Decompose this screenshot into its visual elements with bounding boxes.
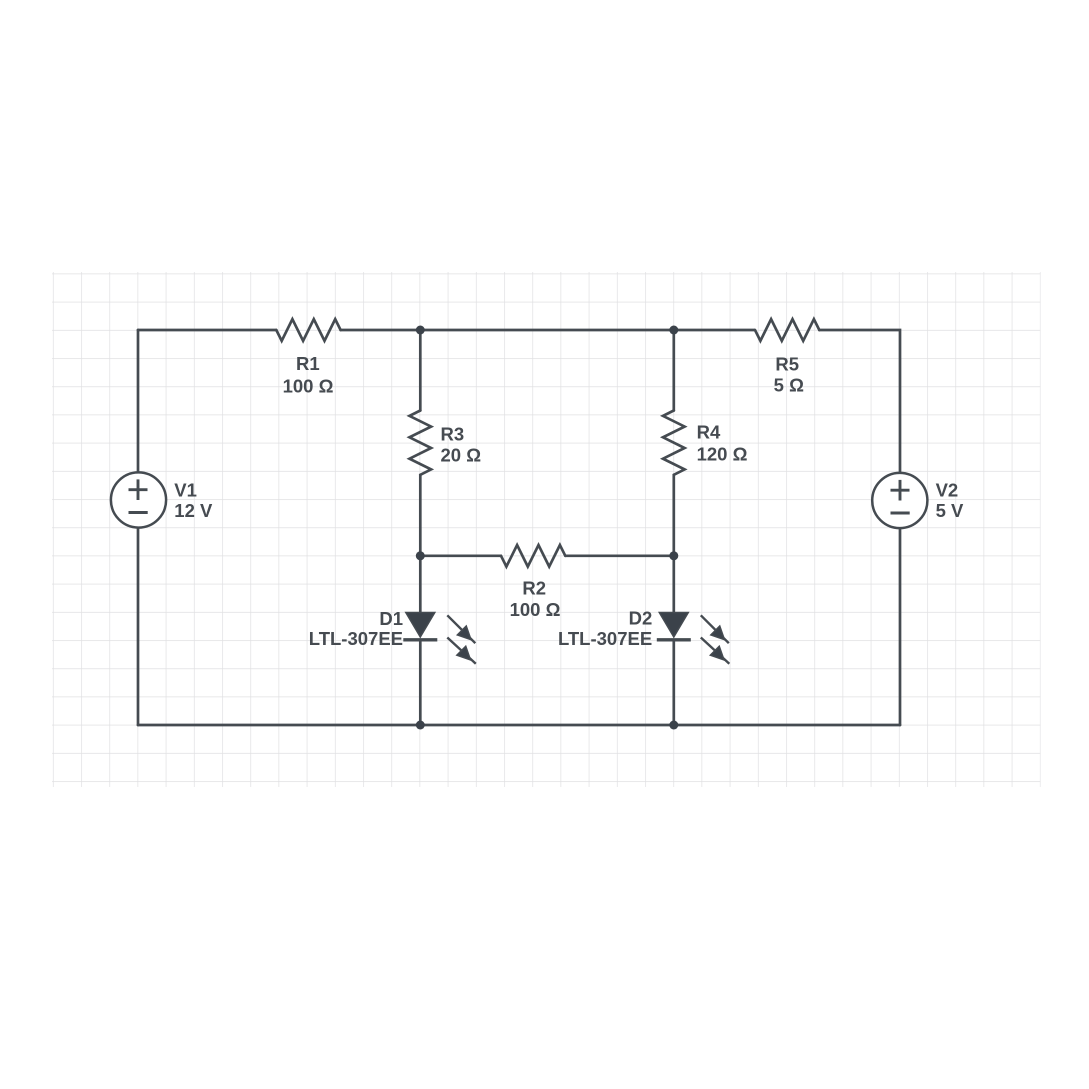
wire right rail bottom segment (V2 bottom to bottom-right corner): [899, 528, 902, 725]
voltage source V1: [111, 472, 166, 527]
resistor R5: [755, 319, 819, 341]
wire R4 to node D: [672, 475, 675, 556]
node B junction dot (top, D2 branch): [669, 326, 678, 335]
wire D2 cathode to bottom rail: [672, 640, 675, 725]
svg-text:D2: D2: [629, 608, 653, 629]
wire node D to D2 anode: [672, 556, 675, 613]
node C junction dot (middle, D1 branch): [416, 551, 425, 560]
wire top rail left segment (corner to R1): [138, 329, 276, 332]
svg-text:LTL-307EE: LTL-307EE: [309, 628, 403, 649]
svg-text:D1: D1: [379, 608, 403, 629]
resistor R2: [501, 545, 565, 567]
junction dot bottom rail D1 branch: [416, 721, 425, 730]
wire node C to D1 anode: [419, 556, 422, 613]
node D junction dot (middle, D2 branch): [669, 551, 678, 560]
svg-text:V1: V1: [174, 479, 197, 500]
svg-text:100 Ω: 100 Ω: [283, 375, 334, 396]
wire bottom rail: [138, 724, 900, 727]
svg-text:5 V: 5 V: [936, 500, 964, 521]
wire top rail R1 to node A: [341, 329, 421, 332]
wire R3 to node C: [419, 475, 422, 556]
wire left rail bottom segment (V1 bottom to bottom-left corner): [137, 528, 140, 725]
junction dot bottom rail D2 branch: [669, 721, 678, 730]
wire top rail node B to R5: [674, 329, 755, 332]
wire left rail top segment (V1 top to top-left corner): [137, 330, 140, 472]
svg-text:R1: R1: [296, 353, 320, 374]
LED D2: [657, 613, 730, 664]
resistor R3: [410, 411, 432, 475]
svg-text:LTL-307EE: LTL-307EE: [558, 628, 652, 649]
node A junction dot (top, D1 branch): [416, 326, 425, 335]
svg-text:V2: V2: [936, 480, 959, 501]
resistor R1: [276, 319, 340, 341]
svg-text:R2: R2: [522, 577, 546, 598]
LED D1: [403, 613, 476, 664]
wire R2 to node D: [565, 554, 674, 557]
svg-text:20 Ω: 20 Ω: [441, 445, 482, 466]
svg-text:100 Ω: 100 Ω: [510, 599, 561, 620]
svg-text:R4: R4: [697, 422, 721, 443]
resistor R4: [663, 411, 685, 475]
wire top rail node A to node B: [420, 329, 674, 332]
voltage source V2: [872, 473, 927, 528]
wire middle node C to R2: [420, 554, 501, 557]
svg-text:R3: R3: [441, 423, 465, 444]
svg-text:120 Ω: 120 Ω: [697, 444, 748, 465]
wire node A to R3: [419, 330, 422, 411]
schematic grid background: [52, 272, 1041, 787]
wire D1 cathode to bottom rail: [419, 640, 422, 725]
svg-text:5 Ω: 5 Ω: [774, 375, 804, 396]
wire node B to R4: [672, 330, 675, 411]
svg-text:R5: R5: [775, 354, 799, 375]
svg-text:12 V: 12 V: [174, 500, 213, 521]
wire top rail R5 to top-right corner: [819, 330, 900, 473]
